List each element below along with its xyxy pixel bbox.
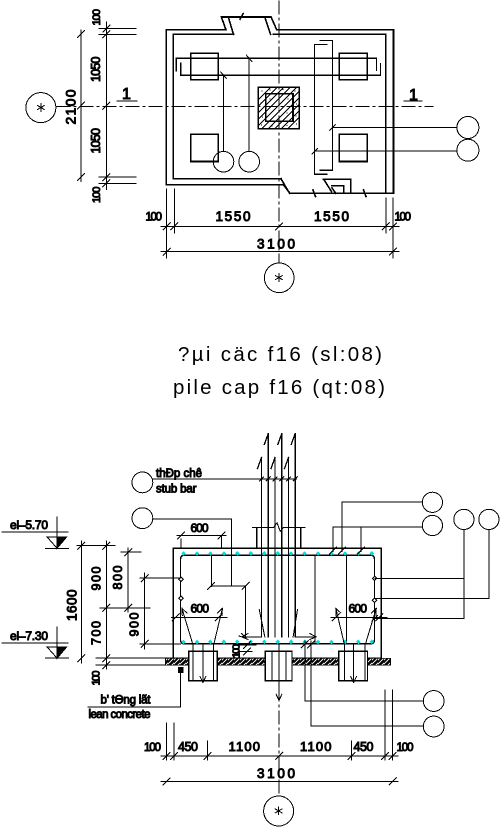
centerline vertical section bbox=[278, 688, 280, 796]
dim 900 inner (section left) bbox=[128, 573, 181, 649]
leader balloon 4 (plan vertical band left line) bbox=[312, 139, 479, 161]
svg-text:1600: 1600 bbox=[65, 590, 80, 622]
svg-text:800: 800 bbox=[111, 565, 125, 589]
svg-text:100: 100 bbox=[91, 187, 103, 204]
svg-text:stub bar: stub bar bbox=[156, 484, 197, 496]
column bar feet bbox=[242, 610, 316, 640]
stirrup 2 (section) bbox=[314, 555, 316, 644]
rebar band vertical right bar (plan) bbox=[320, 40, 332, 170]
svg-text:450: 450 bbox=[178, 740, 198, 754]
column bar short 2 bbox=[271, 458, 275, 637]
centerline vertical plan bbox=[278, 1, 280, 263]
svg-text:600: 600 bbox=[349, 602, 368, 616]
column bar short 3 bbox=[285, 458, 289, 637]
svg-text:3100: 3100 bbox=[257, 237, 295, 252]
side bar left (section) bbox=[180, 558, 182, 641]
leader circle C right bbox=[372, 509, 474, 621]
grid balloon bottom (section) bbox=[264, 796, 294, 826]
stub bar label leader bbox=[132, 468, 297, 496]
column bar short 1 bbox=[258, 458, 262, 637]
pile dim 600 right (section) bbox=[331, 602, 387, 621]
leader circle 2 left bbox=[132, 508, 249, 590]
pile cap inner edge line (plan) bbox=[173, 34, 386, 193]
bottom rebar cyan dots bbox=[181, 640, 374, 645]
centerline horizontal plan bbox=[57, 105, 433, 107]
pile cap outline (plan) bbox=[166, 14, 393, 197]
leader balloon 2 (plan upper bars) bbox=[239, 55, 260, 172]
svg-text:el–5.70: el–5.70 bbox=[10, 518, 48, 532]
svg-text:100: 100 bbox=[144, 742, 161, 754]
bent bar right pile b bbox=[365, 608, 376, 680]
rebar band horizontal lower bar (plan) bbox=[181, 63, 381, 75]
dim 800 (section left) bbox=[100, 548, 150, 612]
column bar long 2 bbox=[278, 434, 282, 637]
dimension 2100 left (plan) bbox=[63, 30, 85, 182]
dim chain 900/700/100 (section left) bbox=[77, 541, 173, 686]
column bar long 3 bbox=[291, 434, 295, 637]
column break line bbox=[253, 523, 305, 531]
bottom dimension chain 100/1550/1550/100 (plan) bbox=[146, 189, 412, 258]
svg-text:100: 100 bbox=[231, 644, 243, 658]
lean concrete label bbox=[88, 668, 183, 721]
svg-text:700: 700 bbox=[90, 621, 104, 645]
pile stub center bbox=[265, 651, 292, 681]
bottom dim chain 100/450/1100/1100/450/100 (section) bbox=[144, 690, 414, 760]
leader circle A right bbox=[339, 492, 443, 554]
dimension chain 100/1050/1050/100 left (plan) bbox=[89, 9, 136, 203]
bent bar left pile a bbox=[182, 608, 193, 680]
Z-bar vertical leg (section) bbox=[239, 586, 246, 638]
svg-text:?µi cäc f16 (sl:08): ?µi cäc f16 (sl:08) bbox=[178, 343, 382, 366]
grid balloon bottom (plan) bbox=[264, 263, 294, 293]
side bar right (section) bbox=[374, 558, 376, 641]
SECTION VIEW bbox=[2, 434, 499, 827]
pile stub right bbox=[339, 651, 368, 681]
pile bottom-right (plan) bbox=[339, 134, 367, 161]
svg-text:pile cap f16 (qt:08): pile cap f16 (qt:08) bbox=[173, 376, 385, 399]
stub dowels center bbox=[272, 644, 286, 700]
top rebar cyan dots bbox=[181, 551, 374, 556]
bottom overall dimension 3100 (plan) bbox=[161, 237, 399, 256]
bent bar right pile a bbox=[336, 608, 345, 680]
svg-text:3100: 3100 bbox=[257, 766, 295, 781]
stirrup 3 (section) bbox=[346, 555, 348, 644]
stirrup 1 (section) bbox=[211, 555, 213, 586]
bottom overall dim 3100 (section) bbox=[161, 766, 398, 785]
PLAN VIEW bbox=[26, 1, 479, 293]
pile top-right (plan) bbox=[339, 53, 367, 79]
svg-text:1050: 1050 bbox=[89, 128, 103, 154]
TITLE TEXT bbox=[173, 343, 385, 399]
dim 600 top (section) bbox=[177, 521, 226, 548]
svg-text:100: 100 bbox=[91, 671, 103, 686]
stub dowels left bbox=[193, 644, 214, 683]
svg-text:1100: 1100 bbox=[300, 739, 332, 754]
leader balloon 3 (plan vertical band right line) bbox=[330, 117, 479, 139]
pile dim 600 left (section) bbox=[172, 602, 228, 621]
dim 1600 (section left) bbox=[65, 541, 85, 663]
top rebar line (section) bbox=[181, 555, 375, 559]
svg-text:100: 100 bbox=[91, 9, 103, 26]
column section hatched (plan) bbox=[258, 87, 299, 128]
grid balloon left (plan) bbox=[26, 93, 56, 123]
svg-text:el–7.30: el–7.30 bbox=[10, 629, 48, 643]
section mark 1 right bbox=[404, 87, 422, 104]
svg-text:900: 900 bbox=[128, 612, 142, 636]
side bar diamonds left bbox=[179, 577, 183, 600]
pile bottom-left (plan) bbox=[191, 134, 219, 161]
elevation marker el-5.70 bbox=[2, 517, 69, 548]
leader circle F bottom right bbox=[307, 641, 444, 737]
leader balloon 1 (plan lower bars) bbox=[213, 72, 234, 172]
svg-text:lean concrete: lean concrete bbox=[89, 709, 151, 721]
svg-text:600: 600 bbox=[191, 521, 209, 535]
pile top-left (plan) bbox=[191, 53, 219, 79]
leader circle D right bbox=[375, 509, 499, 598]
leader circle E bottom right bbox=[301, 641, 444, 711]
stub dowels right bbox=[345, 644, 366, 683]
svg-text:2100: 2100 bbox=[63, 89, 79, 124]
section mark 1 left bbox=[117, 86, 137, 103]
side bar diamonds right bbox=[372, 576, 376, 602]
svg-text:900: 900 bbox=[90, 566, 104, 590]
lean concrete band hatched bbox=[166, 658, 391, 665]
svg-text:1050: 1050 bbox=[89, 56, 103, 82]
svg-text:100: 100 bbox=[397, 742, 414, 754]
rebar band horizontal upper bar (plan) bbox=[176, 58, 376, 71]
svg-text:1100: 1100 bbox=[229, 739, 261, 754]
column outline stub (section) bbox=[257, 528, 301, 549]
svg-text:1550: 1550 bbox=[314, 209, 349, 224]
svg-text:thÐp chê: thÐp chê bbox=[156, 468, 202, 480]
svg-text:1550: 1550 bbox=[216, 209, 251, 224]
svg-text:1: 1 bbox=[409, 87, 418, 104]
svg-text:450: 450 bbox=[354, 740, 374, 754]
bent bar left pile b bbox=[214, 608, 223, 680]
bottom rebar line (section) bbox=[181, 640, 375, 644]
rebar band vertical left bar (plan) bbox=[315, 44, 327, 174]
svg-text:100: 100 bbox=[395, 212, 412, 224]
mini dim 100 stub embed bbox=[231, 641, 257, 658]
cap body outline (section) bbox=[173, 548, 381, 658]
leader circle B right bbox=[330, 515, 443, 554]
pile stub left bbox=[189, 651, 218, 681]
svg-text:100: 100 bbox=[146, 212, 163, 224]
column bar long 1 bbox=[264, 434, 268, 637]
elevation marker el-7.30 bbox=[2, 627, 69, 658]
svg-text:b' tƟng lãt: b' tƟng lãt bbox=[101, 695, 152, 707]
svg-text:600: 600 bbox=[191, 602, 210, 616]
